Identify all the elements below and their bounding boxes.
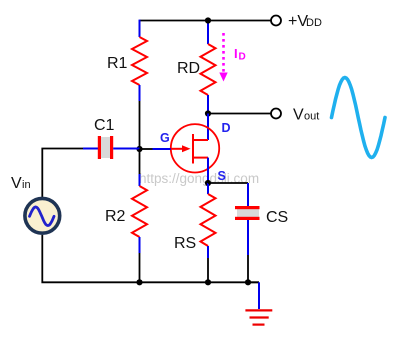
svg-text:DD: DD	[306, 17, 322, 29]
capacitor C1	[83, 136, 140, 159]
ground	[245, 310, 272, 324]
svg-text:in: in	[22, 179, 31, 191]
wire Vin bottom + ground rail	[42, 235, 259, 282]
wire drain node to Vout terminal	[208, 113, 271, 115]
svg-text:V: V	[11, 175, 22, 192]
wire gate lead	[153, 148, 171, 150]
node gate (junction dot)	[136, 146, 142, 152]
svg-text:out: out	[304, 111, 319, 123]
svg-text:D: D	[239, 52, 246, 63]
wire source lead	[207, 158, 209, 183]
svg-text:G: G	[160, 131, 170, 145]
node CS bottom (junction dot)	[245, 279, 251, 285]
capacitor CS	[235, 183, 260, 282]
resistor R1	[132, 20, 147, 101]
wire gate node to gate	[140, 148, 153, 150]
label +VDD	[288, 13, 322, 30]
resistor R2	[132, 149, 147, 282]
wire to ground	[248, 282, 259, 309]
label Vin	[11, 175, 31, 192]
wire drain lead	[207, 114, 209, 141]
node RS bottom (junction dot)	[205, 279, 211, 285]
svg-text:D: D	[222, 121, 231, 135]
svg-text:R2: R2	[105, 208, 126, 225]
terminal Vout	[271, 109, 281, 119]
node source (junction dot)	[205, 180, 211, 186]
node drain (junction dot)	[205, 110, 211, 116]
svg-text:RS: RS	[174, 235, 196, 252]
resistor RD	[201, 20, 216, 114]
wire source node to CS	[208, 182, 248, 184]
node R2 bottom (junction dot)	[136, 279, 142, 285]
label ID	[234, 46, 246, 63]
node top (junction dot)	[205, 17, 211, 23]
svg-text:R1: R1	[107, 55, 128, 72]
svg-text:S: S	[218, 169, 226, 183]
svg-text:CS: CS	[266, 209, 288, 226]
op-amp? no: transistor Q1 MOSFET	[171, 124, 219, 172]
svg-text:C1: C1	[94, 117, 115, 134]
label Vout	[293, 107, 319, 124]
output waveform (cyan sine)	[332, 78, 386, 158]
wire R1 bottom to gate node	[139, 101, 141, 149]
resistor RS	[201, 183, 216, 282]
svg-text:V: V	[293, 107, 304, 124]
terminal +VDD	[271, 16, 281, 26]
current arrow ID	[219, 33, 227, 82]
wire top rail	[140, 20, 271, 22]
svg-text:I: I	[234, 46, 238, 61]
svg-text:RD: RD	[177, 60, 200, 77]
wire Vin to C1	[42, 149, 83, 198]
source Vin	[25, 198, 60, 233]
